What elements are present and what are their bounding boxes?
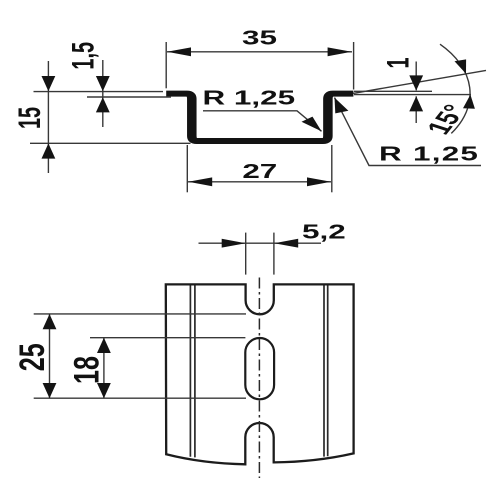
svg-text:R 1,25: R 1,25 (379, 142, 479, 165)
svg-text:15: 15 (11, 107, 47, 129)
svg-text:25: 25 (13, 343, 52, 371)
svg-text:1: 1 (380, 57, 416, 68)
svg-text:35: 35 (242, 26, 277, 49)
svg-text:5,2: 5,2 (302, 220, 346, 243)
svg-text:27: 27 (242, 160, 277, 183)
svg-text:1,5: 1,5 (65, 42, 101, 70)
svg-text:18: 18 (68, 356, 107, 384)
svg-text:R 1,25: R 1,25 (203, 86, 296, 109)
